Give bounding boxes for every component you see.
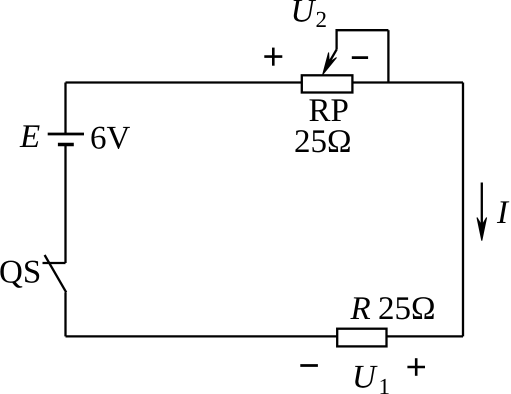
resistor R body <box>337 329 386 347</box>
wire left rail upper segment <box>64 83 66 135</box>
polarity + (U1) <box>415 358 418 376</box>
svg-text:2: 2 <box>316 7 328 32</box>
wiper wire vertical right <box>387 30 389 82</box>
polarity − (U2) <box>352 56 368 59</box>
wiper wire vertical left <box>335 29 337 50</box>
wire bottom rail <box>66 335 464 337</box>
polarity − (U1) <box>300 364 318 367</box>
battery E positive plate <box>48 133 84 136</box>
current arrow I shaft <box>481 183 483 233</box>
svg-text:I: I <box>496 195 510 231</box>
svg-text:6V: 6V <box>90 120 131 156</box>
battery E negative plate <box>58 143 74 146</box>
polarity + (U2) <box>264 55 282 58</box>
switch QS contact stub <box>43 262 66 264</box>
wire left rail lower segment <box>64 292 66 336</box>
svg-text:U: U <box>352 360 378 394</box>
potentiometer RP body <box>302 75 353 92</box>
wire top rail <box>66 81 464 83</box>
wiper arrowhead <box>323 53 337 75</box>
svg-text:E: E <box>19 119 40 155</box>
svg-text:QS: QS <box>0 255 41 291</box>
current arrow I head <box>477 218 487 241</box>
wire left rail middle segment <box>64 145 66 264</box>
wire right rail <box>462 83 464 337</box>
svg-text:U: U <box>291 0 317 29</box>
svg-text:1: 1 <box>379 374 391 394</box>
wiper arrow shaft <box>329 50 337 64</box>
svg-text:25Ω: 25Ω <box>294 124 352 160</box>
wiper wire horizontal top <box>337 29 389 31</box>
switch QS blade <box>45 255 67 292</box>
svg-text:25Ω: 25Ω <box>378 291 436 327</box>
svg-text:R: R <box>350 291 371 327</box>
